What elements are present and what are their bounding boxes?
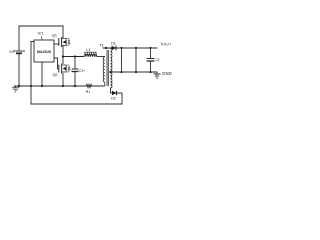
wire Q1 drain from top rail xyxy=(62,26,64,38)
wire node to T1 primary xyxy=(97,56,105,58)
wire bottom rail xyxy=(31,103,122,105)
wire output rail top xyxy=(103,47,157,49)
battery B1 xyxy=(13,51,25,53)
wire top rail xyxy=(19,25,63,27)
wire IC gate drive Q1 xyxy=(54,43,59,45)
wire rail vertical 2 xyxy=(135,48,137,72)
primary winding xyxy=(103,57,105,82)
capacitor C1 xyxy=(72,57,79,87)
wire Q2 source xyxy=(62,74,64,87)
svg-text:D2: D2 xyxy=(111,97,116,101)
secondary winding xyxy=(110,49,112,89)
core xyxy=(107,50,108,86)
wire switch node xyxy=(63,46,84,64)
svg-text:MAX628: MAX628 xyxy=(37,50,51,54)
svg-text:T1: T1 xyxy=(99,44,103,48)
svg-text:D1: D1 xyxy=(111,42,116,46)
svg-text:GND: GND xyxy=(162,71,172,76)
svg-text:VOUT: VOUT xyxy=(161,41,172,46)
transistor Q1 xyxy=(59,37,62,47)
diode D1 xyxy=(112,46,117,51)
svg-text:C2: C2 xyxy=(156,58,160,62)
capacitor C2 xyxy=(147,48,155,72)
transistor Q1 body diode xyxy=(66,39,70,46)
wire IC gate drive Q2 xyxy=(54,58,58,69)
ground (output GND) xyxy=(154,72,161,78)
wire rail vertical 1 xyxy=(121,48,123,72)
diode D2 xyxy=(112,91,117,95)
inductor L1 xyxy=(84,52,97,57)
svg-text:L1: L1 xyxy=(86,48,90,52)
svg-text:C1+: C1+ xyxy=(79,69,85,73)
wire ground rail xyxy=(14,85,105,87)
resistor R1 (current sense, in ground rail) xyxy=(86,84,92,88)
svg-text:R1: R1 xyxy=(86,90,91,94)
svg-text:Q1: Q1 xyxy=(52,34,57,38)
transformer T1 xyxy=(103,48,112,88)
svg-text:IC1: IC1 xyxy=(38,32,44,36)
wire D2 branch xyxy=(111,88,123,104)
svg-text:VIN: VIN xyxy=(9,50,14,54)
wire mid GND rail xyxy=(111,71,158,73)
wire IC left pin to ground xyxy=(31,42,34,105)
op-amp IC1 MAX628 box xyxy=(34,40,54,62)
transistor Q2 body diode xyxy=(66,65,70,72)
wire battery branch xyxy=(18,26,20,86)
transistor Q2 xyxy=(59,64,62,74)
node junction dots xyxy=(18,47,152,87)
wire IC bottom pin xyxy=(41,62,43,86)
ground (battery) xyxy=(12,86,19,92)
svg-text:Q2: Q2 xyxy=(52,73,57,77)
